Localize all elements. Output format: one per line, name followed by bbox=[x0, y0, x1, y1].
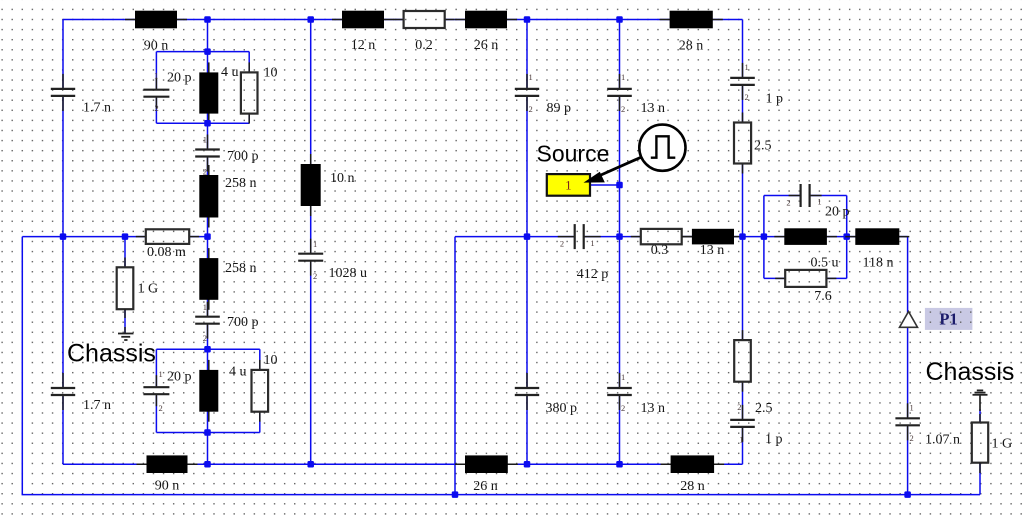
svg-text:1028 u: 1028 u bbox=[329, 266, 368, 281]
svg-text:0.2: 0.2 bbox=[415, 38, 433, 53]
svg-text:700 p: 700 p bbox=[227, 315, 259, 330]
node: middle bus x=527 bbox=[524, 233, 531, 240]
svg-text:2: 2 bbox=[786, 198, 790, 208]
wire: outer left riser + bottom ground bus y=494.6 bbox=[22, 237, 980, 495]
wire: right 1G to ground bus x=980 bbox=[979, 409, 981, 495]
inductor 26n (top) bbox=[455, 11, 517, 29]
svg-text:1.7 n: 1.7 n bbox=[83, 398, 111, 413]
svg-text:89 p: 89 p bbox=[547, 101, 572, 116]
capacitor 700p (lower) bbox=[195, 302, 220, 339]
svg-text:1: 1 bbox=[817, 197, 821, 207]
svg-text:13 n: 13 n bbox=[641, 101, 666, 116]
node: middle-left bus x=207.5 bbox=[204, 233, 211, 240]
resistor 10 (group1, on right edge) bbox=[241, 62, 258, 123]
node: source stub junction bbox=[616, 182, 623, 189]
svg-text:1: 1 bbox=[739, 435, 743, 445]
capacitor 1.07n bbox=[895, 403, 920, 440]
inductor 10n bbox=[301, 154, 321, 216]
svg-text:7.6: 7.6 bbox=[814, 289, 832, 304]
svg-text:10: 10 bbox=[264, 66, 278, 81]
capacitor 380p bbox=[515, 373, 539, 410]
node: right group right bbox=[843, 233, 850, 240]
inductor 0.5u bbox=[774, 228, 837, 245]
capacitor 20p (right group) bbox=[789, 184, 822, 207]
node: bottom bus x=207.5 bbox=[204, 461, 211, 468]
node: middle bus x=619.5 bbox=[616, 233, 623, 240]
svg-text:258 n: 258 n bbox=[225, 176, 257, 191]
resistor 1G (right) bbox=[972, 414, 988, 473]
arrow: from pulse icon to source box bbox=[584, 157, 642, 183]
inductor 28n (top) bbox=[660, 11, 723, 29]
svg-text:10 n: 10 n bbox=[330, 171, 355, 186]
group box: 20p/4u/10 parallel group (lower) bbox=[156, 349, 259, 432]
node: bottom bus x=619.5 bbox=[616, 461, 623, 468]
capacitor 1p (top) bbox=[730, 63, 755, 100]
inductor 258n (lower) bbox=[199, 248, 218, 310]
icon: pulse waveform glyph bbox=[651, 136, 676, 157]
icon: pulse source circle bbox=[639, 125, 685, 171]
svg-text:2: 2 bbox=[155, 103, 159, 113]
svg-text:1: 1 bbox=[590, 238, 594, 248]
wire: source output stub y=185 bbox=[590, 184, 620, 186]
svg-text:20 p: 20 p bbox=[825, 205, 850, 220]
node: right group left bbox=[761, 233, 768, 240]
svg-text:2.5: 2.5 bbox=[754, 139, 772, 154]
inductor 26n (bottom) bbox=[455, 455, 518, 473]
capacitor 1028u bbox=[298, 239, 323, 276]
node: bottom bus x=527 bbox=[524, 461, 531, 468]
svg-text:1.7 n: 1.7 n bbox=[83, 101, 111, 116]
resistor 0.2 bbox=[394, 11, 455, 28]
svg-text:2: 2 bbox=[745, 92, 749, 102]
label P1 (lavender background box, under grid dots) bbox=[925, 308, 973, 330]
capacitor 13n (bottom cap) bbox=[607, 373, 632, 410]
svg-text:2: 2 bbox=[159, 403, 163, 413]
svg-text:28 n: 28 n bbox=[679, 39, 704, 54]
svg-text:90 n: 90 n bbox=[155, 479, 180, 494]
svg-text:2: 2 bbox=[737, 402, 741, 412]
group box: 20p/0.5u/7.6 parallel group (right) bbox=[764, 196, 847, 279]
svg-text:1 p: 1 p bbox=[765, 432, 783, 447]
svg-text:1 G: 1 G bbox=[992, 437, 1013, 452]
node: middle bus x=742.5 bbox=[739, 233, 746, 240]
ground: chassis ground under left 1G bbox=[118, 334, 134, 341]
svg-text:2: 2 bbox=[560, 239, 564, 249]
node: ground bus x=907.6 bbox=[904, 491, 911, 498]
node: group2 top bbox=[204, 346, 211, 353]
capacitor 1.7n (upper left) bbox=[51, 74, 75, 111]
svg-text:1: 1 bbox=[529, 72, 533, 82]
resistor 10 (group2, on right edge) bbox=[252, 360, 269, 422]
wire: riser x=455 bbox=[454, 237, 456, 495]
node: group1 top bbox=[204, 48, 211, 55]
group box: 20p/4u/10 parallel group (upper) bbox=[156, 52, 249, 124]
wire: riser x=619.5 (13n caps) bbox=[619, 20, 621, 465]
svg-text:90 n: 90 n bbox=[144, 39, 169, 54]
svg-text:2: 2 bbox=[529, 104, 533, 114]
svg-text:4 u: 4 u bbox=[221, 65, 239, 80]
capacitor 700p (upper) bbox=[195, 135, 220, 172]
node: group1 bottom bbox=[204, 120, 211, 127]
wire: right output riser x=907.6 bbox=[907, 237, 909, 495]
resistor 2.5 (top) bbox=[734, 113, 751, 174]
svg-text:1: 1 bbox=[621, 72, 625, 82]
resistor 7.6 bbox=[775, 270, 836, 287]
node: middle-left bus x=125 bbox=[122, 233, 129, 240]
svg-text:2: 2 bbox=[621, 104, 625, 114]
svg-text:Chassis: Chassis bbox=[67, 339, 156, 367]
resistor 2.5 (bottom) bbox=[734, 330, 751, 392]
svg-text:1 p: 1 p bbox=[766, 92, 784, 107]
svg-text:1: 1 bbox=[203, 302, 207, 312]
svg-text:1.07 n: 1.07 n bbox=[925, 433, 960, 448]
node: top bus x=310.7 bbox=[307, 16, 314, 23]
svg-text:20 p: 20 p bbox=[167, 71, 192, 86]
svg-text:0.5 u: 0.5 u bbox=[811, 256, 839, 271]
resistor 0.3 bbox=[631, 229, 692, 244]
svg-text:P1: P1 bbox=[939, 309, 957, 328]
wire: right riser x=742.5 (1p/2.5 chains) bbox=[742, 20, 744, 465]
wire: branch to left 1G resistor bbox=[124, 237, 126, 333]
svg-text:1: 1 bbox=[313, 239, 317, 249]
wire: left inner riser x=63 (thru 1.7n caps) bbox=[62, 20, 64, 465]
svg-text:Chassis: Chassis bbox=[926, 358, 1015, 386]
inductor 4u (group2) bbox=[199, 360, 218, 422]
svg-text:13 n: 13 n bbox=[700, 243, 725, 258]
svg-text:118 n: 118 n bbox=[863, 256, 894, 271]
svg-text:1: 1 bbox=[159, 369, 163, 379]
inductor 258n (upper) bbox=[199, 165, 218, 228]
svg-text:2: 2 bbox=[621, 403, 625, 413]
inductor 90n (bottom) bbox=[137, 455, 198, 473]
capacitor 13n (top cap) bbox=[607, 74, 632, 111]
node: top bus x=207.5 bbox=[204, 16, 211, 23]
svg-text:28 n: 28 n bbox=[680, 479, 705, 494]
wire: main ladder chain x=207.5 bbox=[207, 20, 209, 465]
node: bottom bus x=310.7 bbox=[307, 461, 314, 468]
probe P1 triangle bbox=[900, 312, 918, 328]
node: middle-left bus x=63 bbox=[60, 233, 67, 240]
svg-text:380 p: 380 p bbox=[546, 401, 578, 416]
svg-text:1: 1 bbox=[621, 372, 625, 382]
svg-text:2: 2 bbox=[910, 433, 914, 443]
capacitor 20p (group2, on left edge) bbox=[143, 375, 169, 406]
svg-text:Source: Source bbox=[537, 141, 610, 167]
capacitor 20p (group1, on left edge) bbox=[143, 78, 169, 109]
resistor 1G (left) bbox=[117, 258, 134, 334]
svg-text:1: 1 bbox=[565, 179, 571, 193]
inductor 28n (bottom) bbox=[661, 455, 725, 473]
svg-text:1: 1 bbox=[910, 403, 914, 413]
svg-text:26 n: 26 n bbox=[473, 479, 498, 494]
svg-text:2: 2 bbox=[203, 333, 207, 343]
svg-text:2.5: 2.5 bbox=[755, 401, 773, 416]
node: group2 bottom bbox=[204, 429, 211, 436]
svg-text:412 p: 412 p bbox=[577, 267, 609, 282]
svg-text:1: 1 bbox=[203, 135, 207, 145]
svg-text:0.3: 0.3 bbox=[651, 243, 669, 258]
node: top bus x=619.5 bbox=[616, 16, 623, 23]
wire: bottom bus y=464.2 bbox=[63, 463, 743, 465]
wire: riser x=310.7 (10n/1028u) bbox=[310, 20, 312, 465]
node: ground bus x=455 bbox=[452, 491, 459, 498]
inductor 118n bbox=[845, 228, 909, 245]
ground: chassis ground above right 1G bbox=[973, 390, 988, 411]
svg-text:258 n: 258 n bbox=[225, 261, 257, 276]
inductor 4u (group1) bbox=[199, 62, 218, 123]
svg-text:1: 1 bbox=[745, 62, 749, 72]
wire: riser x=527 (89p/380p) bbox=[526, 20, 528, 465]
svg-text:1 G: 1 G bbox=[138, 282, 159, 297]
capacitor 412p bbox=[558, 224, 601, 249]
svg-text:12 n: 12 n bbox=[351, 38, 376, 53]
svg-text:26 n: 26 n bbox=[474, 38, 499, 53]
svg-text:0.08 m: 0.08 m bbox=[147, 245, 186, 260]
capacitor 1p (bottom) bbox=[730, 405, 755, 442]
svg-text:1: 1 bbox=[154, 71, 158, 81]
capacitor 89p bbox=[515, 74, 539, 111]
inductor 12n bbox=[332, 11, 394, 29]
inductor 13n (middle) bbox=[682, 229, 744, 245]
svg-text:10: 10 bbox=[264, 353, 278, 368]
node: top bus x=527 bbox=[524, 16, 531, 23]
capacitor 1.7n (lower left) bbox=[51, 373, 75, 410]
wire: top bus y=19.5 bbox=[63, 19, 743, 21]
wire: middle-right bus y=236.6 bbox=[455, 236, 908, 238]
svg-text:20 p: 20 p bbox=[167, 370, 192, 385]
inductor 90n (top) bbox=[125, 11, 187, 29]
svg-text:2: 2 bbox=[313, 271, 317, 281]
resistor 0.08m bbox=[136, 229, 199, 244]
svg-text:700 p: 700 p bbox=[227, 149, 259, 164]
source V1 (yellow box) bbox=[547, 174, 590, 196]
wire: middle-left bus y=236.6 bbox=[22, 236, 207, 238]
svg-text:13 n: 13 n bbox=[641, 401, 666, 416]
svg-text:4 u: 4 u bbox=[229, 365, 247, 380]
